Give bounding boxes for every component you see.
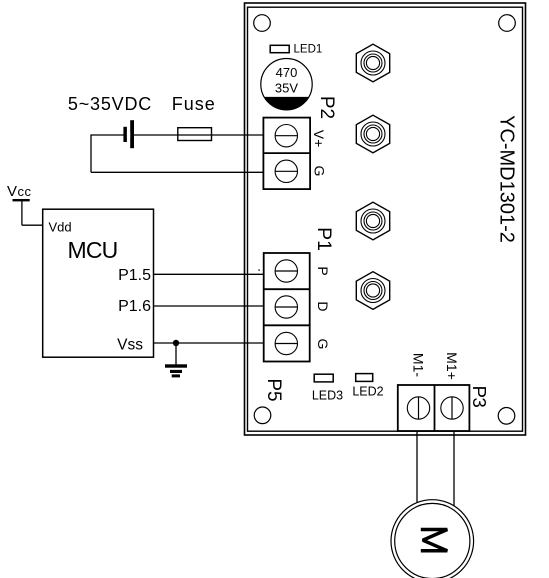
svg-text:Vdd: Vdd (49, 220, 72, 235)
stray dot artifact (258, 269, 260, 271)
wire M1- to motor (416, 431, 418, 505)
board outer outline (245, 3, 526, 435)
svg-text:Vcc: Vcc (7, 183, 32, 200)
LED1 (270, 43, 322, 55)
screw P1 P (275, 260, 297, 282)
wire P1.6 to D (154, 305, 264, 307)
wire battery- down (90, 134, 92, 172)
wire battery+ to fuse to P2 V+ (91, 134, 263, 136)
terminal block P3 (398, 385, 470, 431)
svg-text:Vss: Vss (117, 337, 143, 354)
svg-text:M1-: M1- (410, 353, 426, 377)
terminal block P2 (263, 118, 310, 190)
mounting hole bottom-right (498, 408, 515, 425)
svg-text:LED3: LED3 (312, 388, 343, 402)
mounting hole bottom-left (254, 407, 271, 424)
screw P1 G (275, 332, 297, 354)
standoff hex nut 1 (356, 44, 389, 82)
mounting hole top-left (254, 15, 271, 32)
wire to ground (175, 343, 177, 365)
svg-text:P1.6: P1.6 (118, 298, 151, 315)
svg-text:LED1: LED1 (294, 43, 323, 55)
svg-text:YC-MD1301-2: YC-MD1301-2 (496, 115, 518, 243)
wire Vss to G (154, 342, 264, 344)
ground (165, 364, 187, 377)
capacitor C1 470uF 35V (261, 58, 312, 110)
svg-text:P: P (315, 266, 331, 275)
MCU U1 (43, 209, 154, 357)
screw P2 G (275, 160, 297, 182)
motor M (391, 500, 474, 578)
svg-text:LED2: LED2 (352, 385, 383, 399)
svg-text:D: D (315, 301, 331, 311)
screw P3 M1- (407, 397, 429, 419)
fuse F1 (178, 128, 212, 141)
battery B1 (123, 120, 134, 148)
standoff hex nut 2 (356, 115, 389, 153)
terminal block P1 (264, 253, 310, 362)
standoff hex nut 4 (356, 272, 389, 310)
svg-text:P5: P5 (263, 378, 284, 401)
screw P2 V+ (275, 125, 297, 147)
svg-text:P2: P2 (316, 96, 337, 119)
svg-text:P3: P3 (469, 386, 490, 408)
mounting hole top-right (499, 15, 516, 32)
LED3 (312, 374, 343, 402)
Vcc power symbol (7, 183, 43, 225)
board inner outline (248, 7, 523, 431)
screw P3 M1+ (441, 397, 463, 419)
screw P1 D (275, 296, 297, 318)
svg-text:470: 470 (276, 65, 298, 80)
standoff hex nut 3 (356, 202, 389, 240)
svg-text:MCU: MCU (68, 237, 118, 263)
junction node (173, 340, 179, 346)
svg-text:G: G (315, 339, 331, 350)
svg-text:35V: 35V (275, 80, 298, 95)
svg-text:P1.5: P1.5 (118, 267, 151, 284)
svg-text:V+: V+ (311, 130, 327, 148)
wire P1.5 to P (154, 273, 264, 275)
svg-text:G: G (312, 166, 328, 177)
svg-text:M1+: M1+ (444, 352, 460, 380)
svg-text:Fuse: Fuse (172, 94, 216, 114)
svg-text:P1: P1 (313, 227, 335, 251)
svg-text:5~35VDC: 5~35VDC (68, 94, 152, 114)
wire to P2 G (91, 171, 263, 173)
wire M1+ to motor (453, 431, 455, 508)
LED2 (352, 374, 383, 399)
